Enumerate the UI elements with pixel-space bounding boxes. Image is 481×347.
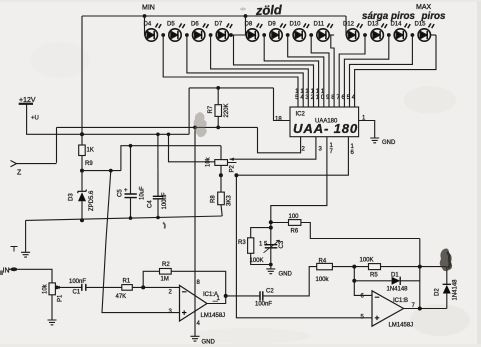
wire left trunk from bus to +12V rail [81,16,83,134]
opamp A plus glyph [182,310,187,315]
wire LED row segment D7-D8 gap [229,34,246,36]
wire IC2 pin 17 to node R3 [271,137,327,223]
wire C4 bottom lead [157,199,159,218]
capacitor C5 10uF [125,194,137,198]
wire IN lead to P1 top [18,269,53,283]
resistor R9 1K [79,145,86,156]
wire IC2 pin 3 lead down [230,137,316,160]
wire V1 long drop to opamp A + input [102,171,180,313]
svg-text:R9: R9 [85,161,93,167]
node D10-D11 junction [309,33,313,37]
svg-text:D10: D10 [290,22,302,28]
node opamp B output pin 7 [418,307,422,311]
svg-text:MIN: MIN [142,5,155,12]
svg-text:D7: D7 [215,22,223,28]
svg-text:piros: piros [390,11,416,22]
svg-text:100K: 100K [250,258,264,264]
LED D13 [371,23,387,41]
wire R9 bottom lead [81,156,83,171]
svg-text:D4: D4 [144,22,152,28]
wire D7 cathode to IC2 pin 12 [234,35,314,107]
node D3 on ground rail [80,218,84,222]
wire D12 cathode to IC2 pin 7 [339,35,365,107]
label pin 17 [330,143,334,155]
svg-text:P2: P2 [230,164,236,172]
opamp B plus glyph [375,316,380,321]
svg-text:+: + [124,188,128,194]
capacitor C1 100nF [82,284,86,291]
wiper arrowhead P1 [56,286,60,289]
wire IC2 pin 2 loop to rail C [258,127,301,152]
wire top LED supply bus [82,15,346,17]
LED D11 [317,23,333,41]
wire rail B left leg down to +12V rail [188,88,190,134]
wire bus drop to D12 anode [345,16,347,35]
svg-text:zöld: zöld [255,2,284,18]
node D1 anode tap [352,279,356,283]
svg-text:D9: D9 [268,22,276,28]
wire P2 wiper top lead [220,146,222,160]
LED D9 [270,23,286,41]
node R3 bottom loop [269,263,273,267]
wire D14 cathode to IC2 pin 5 [350,35,413,107]
wire rail B top supply to pin 18 [189,87,273,89]
node D4-D5 junction [161,33,165,37]
svg-text:R6: R6 [291,229,299,235]
node bus to D8 [244,14,248,18]
node R6 left on R3 vertical [269,220,273,224]
svg-text:IC1:B: IC1:B [393,298,408,304]
svg-text:1N4148: 1N4148 [387,287,409,293]
node C5 on ground rail [129,216,133,220]
LED D14 [394,23,410,41]
diode D3 ZPD5.6 zener [78,190,86,202]
svg-text:R7: R7 [208,105,214,113]
svg-text:ZPD5.6: ZPD5.6 [89,190,95,211]
wire +12V down to rail A [27,104,190,135]
wire bus drop to D8 anode [245,16,248,35]
svg-text:C5: C5 [118,189,124,197]
svg-text:IN: IN [3,267,10,274]
power +12V terminal bar [19,103,33,105]
wire D15 cathode to IC2 pin 4 [355,35,436,107]
svg-text:10k: 10k [43,283,49,294]
wire C5 jog riser [121,146,221,171]
svg-text:D8: D8 [245,22,253,28]
node P1 wiper [55,286,59,290]
svg-text:sárga: sárga [362,11,389,22]
wire LED row segment D15 tail [431,34,436,36]
LED D4 [145,23,161,41]
node D12-D13 junction [363,33,367,37]
svg-text:R2: R2 [162,262,170,268]
potentiometer P2 10k [215,160,228,166]
wire R9 top lead [81,134,83,145]
svg-text:D12: D12 [343,22,355,28]
svg-text:100nF: 100nF [69,279,86,285]
wire P1 wiper to C1 [57,286,82,288]
resistor R8 3K3 [218,192,225,205]
LED D5 [169,23,185,41]
ground IC2 pin 1 [370,138,379,143]
wire node to IC1B plus input [236,175,372,318]
svg-text:Z: Z [17,170,22,177]
wire D3 anode to ground rail [81,201,83,220]
wire C1 to R1 [86,286,122,288]
wire opamp A V+ pin 8 and V- pin 4 through line [194,127,196,336]
resistor R1 47K [122,285,133,291]
svg-text:D3: D3 [69,193,75,201]
connector Z input [11,161,17,167]
node D7 cathode junction [229,33,233,37]
wire ground rail G [26,216,223,220]
diode D2 1N4148 vertical [443,267,451,309]
resistor R6 100 [289,220,301,226]
LED D10 [293,23,309,41]
wire junction down to pin 6 [354,267,372,296]
svg-text:R3: R3 [238,240,246,246]
capacitor C3 trimmer [264,240,280,253]
node bus to D4 [143,14,147,18]
wire C2 to R4 riser [263,267,317,296]
node R5 output vertical top [418,265,422,269]
svg-text:UAA- 180: UAA- 180 [293,121,358,136]
wire R2 right to output node [171,271,226,296]
svg-text:100nF: 100nF [162,192,168,209]
node P2/R8/pin16 [219,173,223,177]
node C4 on ground rail [156,216,160,220]
svg-text:MAX: MAX [416,4,432,11]
wire IC2 pin 18 supply feed [274,88,291,121]
wire D6 cathode to IC2 pin 13 [211,35,309,107]
wire C5 bottom lead [130,198,132,219]
label pin 16 [351,144,355,156]
diode D1 1N4148 [392,277,401,285]
ground opamp A pin 4 [191,336,200,341]
wire R3 node vertical [270,222,272,269]
svg-text:1K: 1K [87,148,94,154]
svg-text:GND: GND [382,140,396,146]
wire R7 top lead [217,88,219,105]
capacitor C4 100nF [153,196,163,199]
svg-text:220K: 220K [224,103,230,117]
ground P1 [48,320,57,325]
svg-text:R1: R1 [123,279,131,285]
smudge left edge mark [0,271,3,276]
wire D8 cathode to IC2 pin 11 [264,35,318,107]
wire rail A down to P2 left lead [169,134,215,162]
svg-text:D14: D14 [391,22,403,28]
svg-text:1N4148: 1N4148 [453,279,459,301]
node pin16 line corner [234,173,238,177]
svg-text:100k: 100k [316,277,330,283]
resistor R2 1M [160,269,172,275]
ground small tick symbol [11,247,18,252]
svg-text:LM1458J: LM1458J [389,323,414,329]
svg-text:D6: D6 [191,22,199,28]
svg-text:D11: D11 [314,22,325,28]
wire opamp B output [404,308,447,310]
node D5-D6 junction [185,33,189,37]
label IC2 pin numbers row [295,89,356,101]
wire R7 bottom lead to rail C [217,116,219,127]
wire zener node horizontal [82,170,121,172]
svg-text:piros: piros [421,11,447,22]
smudge ink blob right [440,249,452,272]
resistor R7 220K [215,105,222,117]
svg-text:10uF: 10uF [140,186,146,200]
svg-text:3K3: 3K3 [227,195,233,206]
node D13-D14 junction [387,33,391,37]
resistor R3 100K [248,238,254,254]
node D6-D7 junction [209,33,213,37]
wire D5 cathode to IC2 pin 14 [187,35,303,107]
wiper arrowhead at P2 [230,158,235,161]
LED D7 [216,23,232,41]
svg-text:LM1458J: LM1458J [201,313,226,319]
wire D11 cathode to IC2 pin 8 [331,35,334,107]
wire R8 bottom to ground rail [221,205,222,216]
svg-text:D13: D13 [368,22,380,28]
wire LED row segment D11 tail [329,34,334,36]
resistor R4 100k [317,263,333,269]
svg-text:C1: C1 [73,290,81,296]
wire R6 feed loop [271,223,420,239]
connector IN plug [9,267,18,271]
wire rail C from input divider [57,126,258,128]
node R9 bottom / zener node [80,169,84,173]
svg-text:47K: 47K [116,294,127,300]
svg-text:GND: GND [202,340,216,346]
svg-text:D2: D2 [435,288,441,296]
svg-text:18: 18 [275,116,282,122]
svg-text:100K: 100K [360,258,374,264]
LED D12 [347,23,363,41]
wire D1 anode lead [354,280,391,282]
resistor R5 100K [369,264,381,270]
label 1 opamp A output [213,296,221,302]
smudge top bus mark [240,8,246,11]
node D8-D9 junction [262,33,266,37]
svg-text:R8: R8 [211,195,217,203]
wire feedback left riser [143,271,159,287]
wire bus drop to D4 anode [144,16,147,35]
LED D15 [418,23,434,41]
node P2 feed on rail A [167,133,171,137]
svg-text:P1: P1 [58,294,64,302]
node feedback junction [141,285,145,289]
node R3 top loop [269,226,273,230]
svg-text:1M: 1M [161,277,169,283]
LED D8 [246,23,262,41]
svg-text:D15: D15 [415,22,427,28]
wire ground rail left drop [25,220,27,252]
wire P1 bottom to ground [51,295,53,320]
capacitor C2 100nF [260,291,263,300]
svg-text:100nF: 100nF [255,302,272,308]
wire R3 top loop [251,228,271,238]
wire C5 top lead [130,146,132,194]
node V1 tap [109,169,113,173]
node R7 top on rail B [216,86,220,90]
op-amp driver IC2 UAA180 [290,107,359,137]
wire R5 right to node vertical [381,266,447,268]
wire opamp A output [207,296,260,304]
svg-text:GND: GND [279,272,293,278]
op-amp IC1:B [372,291,404,326]
svg-text:C2: C2 [266,289,274,295]
svg-text:IC2: IC2 [296,112,306,118]
node D14-D15 junction [411,33,415,37]
svg-text:C4: C4 [148,200,154,208]
potentiometer P1 10k [49,283,55,295]
ground C3 node [266,269,275,274]
node pin8 tap on rail C [193,126,197,130]
node trunk on rail A [80,132,84,136]
wire D1 cathode to output node [400,280,420,282]
LED D6 [193,23,209,41]
svg-text:+U: +U [31,116,39,122]
wire Z connector vertical riser [56,127,58,162]
wire Z lead [17,163,57,165]
op-amp IC1:A [180,285,208,321]
wire P2 right lead down [221,163,236,193]
ground left rail [21,252,30,257]
wire R3 bottom loop [251,253,271,264]
wire D4 cathode to IC2 pin 15 [163,35,298,107]
svg-text:C3: C3 [279,240,285,248]
wire IC2 pin 1 to ground [359,121,375,139]
node D9-D10 junction [286,33,290,37]
opamp A minus glyph [182,291,187,293]
wire D10 cathode to IC2 pin 9 [311,35,329,107]
wire IC2 pin 16 to node P2/R8 [236,137,348,176]
svg-text:R5: R5 [370,273,378,279]
wire R4 to R5 [332,266,368,268]
node C5 on jog line [129,144,133,148]
svg-text:D5: D5 [167,22,175,28]
wire output node vertical [419,239,421,309]
smudge tick below C4 [163,223,165,229]
wire R1 to inverting input [132,286,179,289]
node R7 bottom on rail C [216,126,220,130]
node C4 top on rail A [156,133,160,137]
wire D3 cathode lead [81,171,83,192]
wire D13 cathode to IC2 pin 6 [344,35,388,107]
smudge scan blob center [194,112,207,137]
wire D9 cathode to IC2 pin 10 [288,35,324,107]
node opamp A output [224,294,228,298]
node R4-R5 junction [352,265,356,269]
opamp B minus glyph [375,296,380,298]
wire C4 top lead [157,134,159,196]
